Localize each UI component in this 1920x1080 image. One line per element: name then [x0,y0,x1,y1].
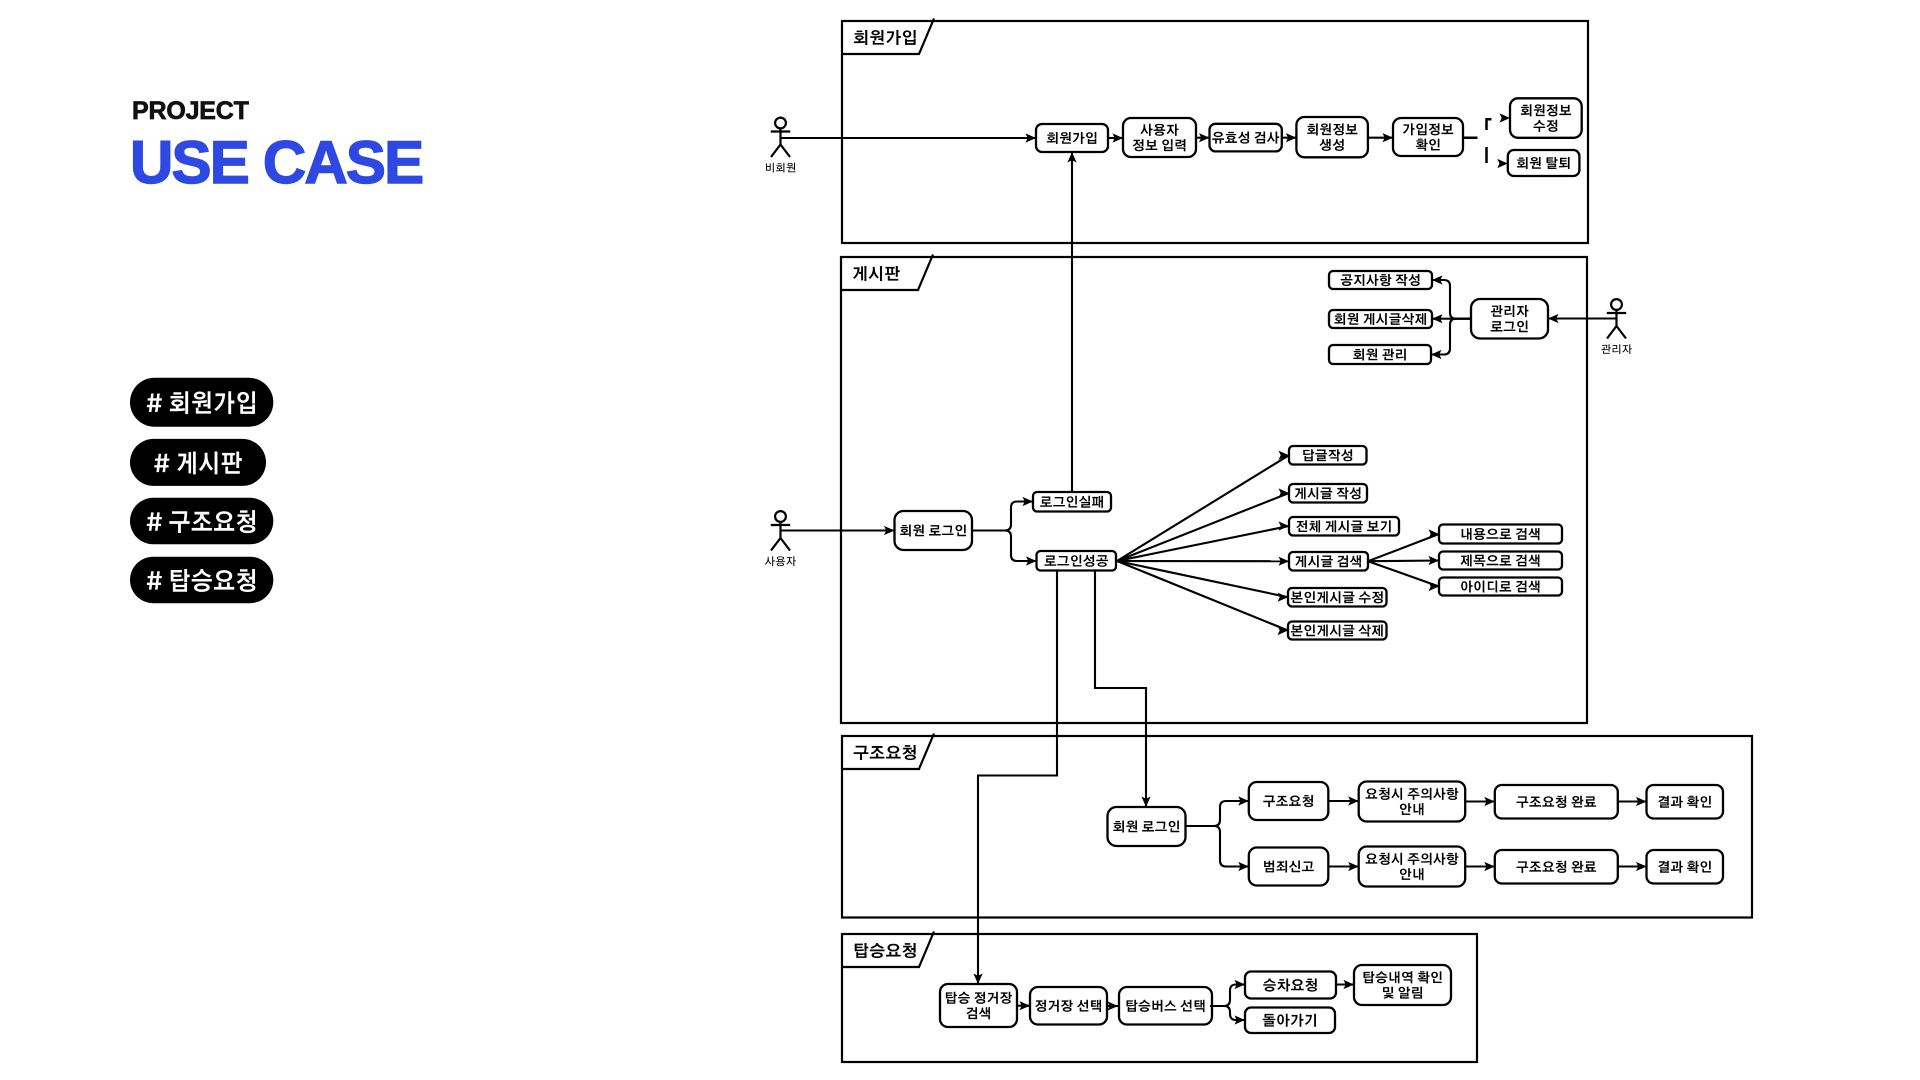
usecase box 탑승버스 선택 [1119,987,1212,1025]
arrow 로그인성공→회원로그인 구조요청(하향) [1095,571,1151,808]
frame 구조요청 [842,736,1752,918]
usecase box 돌아가기 [1245,1008,1335,1034]
arrow 탑승정거장검색→정거장선택 [1017,1001,1030,1010]
usecase box 회원 로그인(구조요청) [1108,807,1186,846]
arrow 관리자로그인→회원게시글삭제 [1432,314,1471,323]
arrow 안내→구조요청완료(하) [1465,862,1495,871]
usecase box 구조요청 완료(상) [1495,785,1618,819]
usecase box 답글작성 [1289,446,1367,465]
usecase box 회원 탈퇴 [1508,150,1580,176]
usecase box 결과 확인(상) [1647,785,1724,819]
usecase box 승차요청 [1245,972,1336,999]
arrow 로그인성공→탑승정거장검색(하향) [973,571,1057,985]
usecase box 회원정보 수정 [1510,98,1582,138]
arrow 관리자→관리자로그인 [1548,314,1617,323]
usecase box 요청시 주의사항 안내(하) [1359,847,1466,887]
usecase box 회원정보 생성 [1296,117,1368,157]
tag pill 탑승요청 [130,557,273,604]
tag pill 구조요청 [130,498,273,545]
actor 관리자 [1601,299,1631,354]
title kicker PROJECT [132,97,249,126]
usecase box 탑승내역 확인 및 알림 [1354,965,1451,1005]
usecase box 전체 게시글 보기 [1289,517,1399,536]
frame label tab 구조요청 [842,734,934,770]
frame 회원가입 [842,21,1588,243]
usecase box 게시글 검색 [1289,552,1368,571]
arrow 안내→구조요청완료(상) [1465,797,1495,806]
arrow 탑승버스선택→돌아가기 [1210,1006,1245,1025]
tag pill 게시판 [130,439,266,486]
arrow 구조요청→요청시주의사항안내 [1328,796,1358,805]
usecase box 로그인실패 [1033,492,1111,512]
frame 게시판 [841,257,1587,723]
arrow 회원로그인→범죄신고 [1186,826,1249,871]
usecase box 회원가입 [1036,124,1108,152]
usecase box 범죄신고 [1249,848,1329,886]
usecase box 회원 로그인 [895,511,973,550]
arrow 탑승버스선택→승차요청 [1210,980,1245,1006]
usecase box 사용자 정보 입력 [1123,118,1196,157]
arrow 유효성검사→회원정보생성 [1282,133,1297,142]
usecase box 아이디로 검색 [1439,578,1562,596]
usecase box 제목으로 검색 [1439,552,1562,570]
tag pill 회원가입 [130,378,273,427]
usecase box 구조요청 [1249,782,1329,820]
usecase box 본인게시글 수정 [1288,588,1387,607]
usecase box 결과 확인(하) [1647,850,1724,884]
arrow 관리자로그인→공지사항작성 [1432,275,1471,318]
frame label tab 회원가입 [842,19,934,55]
arrow 로그인성공→게시글작성 [1117,488,1289,561]
arrow 정거장선택→탑승버스선택 [1106,1001,1118,1010]
arrow 구조요청완료→결과확인(상) [1618,797,1647,806]
frame 탑승요청 [842,934,1477,1062]
arrow 로그인성공→전체게시글보기 [1117,521,1289,561]
usecase box 요청시 주의사항 안내(상) [1359,782,1466,822]
usecase box 공지사항 작성 [1329,271,1432,289]
title USE CASE [130,128,422,197]
arrow 비회원→회원가입 [781,133,1036,142]
usecase box 게시글 작성 [1289,484,1367,503]
usecase box 회원 게시글삭제 [1329,310,1432,328]
arrow 구조요청완료→결과확인(하) [1618,862,1647,871]
arrow 범죄신고→요청시주의사항안내 [1328,862,1358,871]
usecase box 구조요청 완료(하) [1495,850,1618,884]
actor 사용자 [765,511,796,566]
usecase box 정거장 선택 [1030,987,1107,1025]
usecase box 로그인성공 [1037,551,1117,571]
frame label tab 게시판 [841,255,933,291]
usecase box 회원 관리 [1329,345,1431,364]
frame label tab 탑승요청 [842,932,934,968]
usecase box 본인게시글 삭제 [1288,622,1387,640]
usecase box 유효성 검사 [1210,124,1282,152]
arrow 회원가입→사용자정보입력 [1108,133,1123,142]
arrow 로그인실패→회원가입(상향) [1067,152,1076,492]
arrow 로그인성공→게시글검색 [1117,557,1289,566]
arrow 회원로그인→로그인성공 [972,531,1037,566]
arrow 승차요청→탑승내역확인 [1336,980,1354,989]
arrow 게시글검색→제목으로검색 [1368,556,1439,565]
usecase box 관리자 로그인 [1471,299,1548,339]
dashed connector 가입정보확인→회원정보수정 [1463,113,1510,137]
arrow 로그인성공→본인게시글삭제 [1117,561,1288,635]
dashed connector 가입정보확인→회원탈퇴 [1487,147,1508,168]
arrow 사용자정보입력→유효성검사 [1196,133,1210,142]
usecase box 탑승 정거장 검색 [940,984,1017,1027]
arrow 로그인성공→본인게시글수정 [1117,561,1288,602]
arrow 사용자→회원로그인 [781,526,895,535]
arrow 회원정보생성→가입정보확인 [1368,133,1393,142]
arrow 회원로그인→구조요청 [1186,796,1249,826]
usecase box 내용으로 검색 [1439,525,1562,544]
arrow 회원로그인→로그인실패 [972,497,1033,531]
arrow 로그인성공→답글작성 [1117,451,1289,561]
actor 비회원 [766,118,795,173]
arrow 게시글검색→아이디로검색 [1368,561,1439,591]
arrow 관리자로그인→회원관리 [1431,319,1471,359]
usecase box 가입정보 확인 [1393,118,1463,156]
arrow 게시글검색→내용으로검색 [1368,529,1439,561]
